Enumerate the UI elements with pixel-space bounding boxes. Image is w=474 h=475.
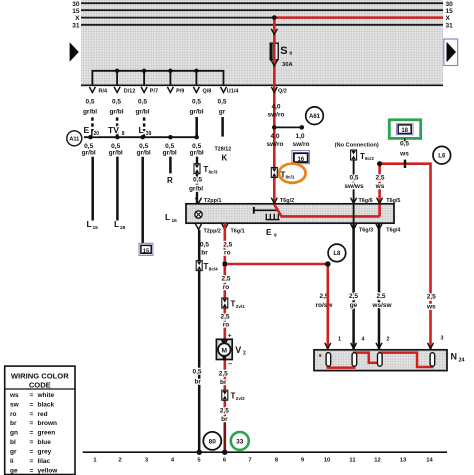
svg-text:br: br: [221, 416, 228, 423]
svg-text:K: K: [222, 154, 228, 163]
svg-text:2,5: 2,5: [220, 407, 229, 414]
svg-text:1: 1: [93, 458, 97, 464]
svg-text:ro/sw: ro/sw: [316, 302, 334, 309]
svg-text:U1/4: U1/4: [227, 88, 240, 94]
svg-text:T2pp/1: T2pp/1: [204, 198, 221, 204]
svg-text:13: 13: [400, 458, 407, 464]
svg-text:=: =: [30, 401, 34, 408]
svg-text:9: 9: [274, 233, 277, 239]
svg-text:lilac: lilac: [38, 458, 51, 465]
svg-text:5: 5: [197, 458, 201, 464]
svg-text:D/12: D/12: [124, 88, 136, 94]
svg-text:16: 16: [297, 157, 304, 163]
svg-text:X: X: [446, 15, 451, 22]
svg-text:2,5: 2,5: [220, 314, 229, 321]
svg-text:0,5: 0,5: [112, 98, 121, 105]
svg-text:CODE: CODE: [29, 380, 51, 389]
svg-text:bl: bl: [10, 439, 16, 446]
svg-text:15: 15: [72, 8, 80, 15]
svg-text:0,5: 0,5: [192, 98, 201, 105]
svg-text:31: 31: [72, 22, 80, 29]
svg-text:ro: ro: [224, 250, 231, 257]
svg-text:T6g/6: T6g/6: [359, 198, 373, 204]
svg-text:gr/bl: gr/bl: [83, 108, 97, 115]
svg-text:0,5: 0,5: [200, 242, 209, 249]
svg-text:=: =: [30, 392, 34, 399]
svg-text:ro: ro: [223, 322, 230, 329]
svg-text:gn: gn: [10, 430, 18, 437]
svg-text:8c/1: 8c/1: [286, 175, 295, 180]
svg-text:gr/bl: gr/bl: [189, 186, 203, 193]
svg-text:4: 4: [362, 337, 365, 343]
svg-text:0,5: 0,5: [85, 98, 94, 105]
svg-text:blue: blue: [38, 439, 52, 446]
svg-text:ge: ge: [10, 468, 18, 475]
svg-text:sw: sw: [10, 401, 20, 408]
svg-text:br: br: [220, 379, 227, 386]
svg-text:P/9: P/9: [176, 88, 184, 94]
svg-text:N: N: [451, 352, 458, 362]
svg-text:33: 33: [236, 438, 244, 445]
svg-text:sw/ro: sw/ro: [293, 141, 310, 148]
svg-text:gr/bl: gr/bl: [109, 108, 123, 115]
svg-text:20: 20: [94, 131, 100, 137]
svg-text:L6: L6: [438, 154, 446, 160]
svg-text:6: 6: [290, 51, 293, 57]
svg-text:30: 30: [446, 1, 454, 8]
svg-text:2,5: 2,5: [427, 294, 436, 301]
svg-text:0,5: 0,5: [217, 98, 226, 105]
svg-text:brown: brown: [38, 420, 58, 427]
svg-text:T: T: [231, 300, 236, 309]
svg-text:24: 24: [459, 357, 465, 363]
svg-text:2: 2: [243, 351, 246, 357]
svg-text:30A: 30A: [282, 62, 293, 68]
svg-text:11: 11: [349, 458, 356, 464]
svg-text:4,0: 4,0: [270, 133, 279, 140]
svg-text:3: 3: [441, 336, 444, 342]
svg-text:L: L: [87, 219, 92, 229]
svg-text:0,5: 0,5: [349, 175, 358, 182]
svg-text:2: 2: [118, 458, 121, 464]
svg-text:T2pp/2: T2pp/2: [204, 229, 221, 235]
svg-text:15: 15: [446, 8, 454, 15]
svg-text:white: white: [37, 392, 55, 399]
svg-text:ws: ws: [375, 183, 385, 190]
svg-text:=: =: [30, 468, 34, 475]
svg-text:L: L: [139, 125, 144, 135]
svg-text:8: 8: [122, 131, 125, 137]
svg-text:1,0: 1,0: [295, 133, 304, 140]
svg-text:0,5: 0,5: [400, 141, 409, 148]
svg-text:31: 31: [446, 22, 454, 29]
svg-text:T28/12: T28/12: [215, 147, 232, 153]
svg-text:grey: grey: [38, 449, 52, 456]
svg-text:15: 15: [143, 248, 150, 254]
svg-text:=: =: [30, 411, 34, 418]
svg-text:br: br: [201, 250, 208, 257]
svg-text:Q/8: Q/8: [203, 88, 212, 94]
svg-text:V: V: [235, 345, 241, 355]
svg-text:ws/sw: ws/sw: [371, 302, 392, 309]
svg-text:gr/bl: gr/bl: [137, 150, 151, 157]
svg-text:2v/2: 2v/2: [236, 396, 245, 401]
svg-text:gr/bl: gr/bl: [189, 108, 203, 115]
svg-text:E: E: [266, 227, 272, 237]
svg-text:15: 15: [93, 225, 99, 231]
svg-text:6: 6: [223, 458, 227, 464]
svg-text:2v/1: 2v/1: [236, 304, 245, 309]
svg-text:14: 14: [426, 458, 433, 464]
svg-text:2,5: 2,5: [376, 293, 385, 300]
svg-text:–: –: [228, 361, 232, 368]
svg-text:ro: ro: [223, 284, 230, 291]
svg-text:ws: ws: [9, 392, 19, 399]
svg-text:green: green: [38, 430, 56, 437]
svg-text:T: T: [231, 392, 236, 401]
svg-text:2,5: 2,5: [223, 242, 232, 249]
svg-text:ws: ws: [426, 304, 436, 311]
svg-text:80: 80: [209, 438, 217, 445]
svg-text:L: L: [114, 219, 119, 229]
svg-text:R/4: R/4: [99, 88, 109, 94]
svg-text:L8: L8: [333, 251, 341, 257]
svg-text:M: M: [222, 347, 228, 354]
svg-text:T: T: [204, 262, 209, 271]
svg-text:8c/3: 8c/3: [209, 170, 218, 175]
svg-text:4,0: 4,0: [271, 104, 280, 111]
svg-text:10: 10: [324, 458, 330, 464]
svg-text:4: 4: [171, 458, 175, 464]
svg-text:TV: TV: [108, 125, 119, 135]
svg-text:T6g/5: T6g/5: [386, 198, 400, 204]
svg-text:li: li: [10, 458, 14, 465]
svg-text:ws: ws: [399, 151, 409, 158]
svg-text:L: L: [165, 212, 170, 222]
svg-text:P/7: P/7: [150, 88, 158, 94]
svg-text:=: =: [30, 458, 34, 465]
svg-text:R: R: [167, 176, 173, 185]
svg-text:0,5: 0,5: [138, 98, 147, 105]
svg-text:8c/2: 8c/2: [365, 156, 374, 161]
svg-text:8: 8: [275, 458, 279, 464]
svg-text:ro: ro: [10, 411, 17, 418]
svg-text:gr: gr: [10, 449, 17, 456]
svg-text:30: 30: [72, 1, 80, 8]
svg-text:gr/bl: gr/bl: [109, 150, 123, 157]
svg-text:E: E: [84, 125, 90, 135]
svg-text:=: =: [30, 420, 34, 427]
svg-text:=: =: [30, 430, 34, 437]
svg-text:black: black: [38, 401, 55, 408]
svg-text:0,5: 0,5: [192, 369, 201, 376]
svg-text:br: br: [194, 379, 201, 386]
svg-text:3: 3: [145, 458, 149, 464]
svg-text:8c/4: 8c/4: [209, 267, 218, 272]
svg-text:A11: A11: [69, 137, 79, 143]
svg-text:S: S: [280, 45, 287, 57]
svg-text:2: 2: [387, 337, 390, 343]
svg-text:T6g/3: T6g/3: [359, 228, 373, 234]
svg-text:T6g/1: T6g/1: [231, 229, 245, 235]
svg-text:9: 9: [301, 458, 305, 464]
svg-text:WIRING COLOR: WIRING COLOR: [11, 372, 69, 381]
svg-text:=: =: [30, 439, 34, 446]
svg-text:red: red: [38, 411, 48, 418]
svg-text:+: +: [228, 333, 232, 340]
svg-text:Q/2: Q/2: [278, 89, 287, 95]
svg-text:2,5: 2,5: [219, 371, 228, 378]
svg-text:2,5: 2,5: [349, 293, 358, 300]
svg-text:ge: ge: [350, 302, 358, 309]
svg-text:28: 28: [120, 225, 126, 231]
svg-text:X: X: [75, 15, 80, 22]
svg-text:(No Connection): (No Connection): [335, 143, 379, 149]
svg-text:gr/bl: gr/bl: [82, 150, 96, 157]
svg-text:br: br: [10, 420, 17, 427]
svg-text:16: 16: [172, 218, 178, 224]
svg-text:A61: A61: [309, 114, 321, 120]
svg-text:gr/bl: gr/bl: [163, 150, 177, 157]
svg-text:sw/ro: sw/ro: [268, 112, 285, 119]
svg-text:sw/ws: sw/ws: [344, 183, 364, 190]
svg-text:18: 18: [401, 128, 408, 134]
svg-text:39: 39: [146, 131, 152, 137]
svg-text:sw/ro: sw/ro: [267, 141, 284, 148]
svg-text:1: 1: [338, 337, 341, 343]
svg-text:12: 12: [374, 458, 380, 464]
svg-text:gr/bl: gr/bl: [190, 150, 204, 157]
svg-text:gr/bl: gr/bl: [135, 108, 149, 115]
svg-text:T6g/2: T6g/2: [280, 198, 294, 204]
svg-text:0,5: 0,5: [193, 177, 202, 184]
svg-text:yellow: yellow: [38, 468, 59, 475]
svg-text:T6g/4: T6g/4: [386, 228, 400, 234]
svg-text:7: 7: [248, 458, 251, 464]
svg-text:2,5: 2,5: [375, 175, 384, 182]
svg-text:=: =: [30, 449, 34, 456]
svg-text:gr: gr: [219, 108, 226, 115]
svg-text:2,5: 2,5: [221, 276, 230, 283]
